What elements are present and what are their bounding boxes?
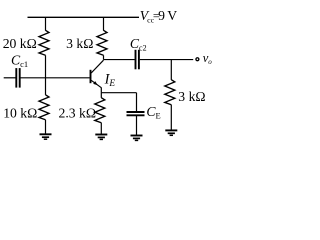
wire emitter junction to CE branch <box>101 92 136 94</box>
svg-text:3 kΩ: 3 kΩ <box>66 36 93 51</box>
ground below 2.3k <box>95 135 107 140</box>
wire 20k to input junction <box>45 55 47 78</box>
svg-text:20 kΩ: 20 kΩ <box>3 36 37 51</box>
wire collector junction to Cc2 <box>104 59 135 61</box>
ground below CE <box>131 136 143 141</box>
capacitor Cc2 <box>136 50 139 70</box>
wire input junction to 10k resistor <box>45 78 47 95</box>
transistor Q1 emitter line with arrow <box>91 80 101 87</box>
wire 3k to collector junction <box>103 55 105 59</box>
svg-text:Vcc=9V: Vcc=9V <box>140 8 177 24</box>
node vo terminal circle <box>196 58 199 61</box>
wire output line to 3k load <box>170 60 172 80</box>
wire 3k load to ground <box>170 105 172 130</box>
wire rail to 3k resistor <box>103 17 105 30</box>
wire emitter junction to 2.3k <box>100 93 102 98</box>
wire emitter to junction <box>100 88 102 93</box>
capacitor Cc1 <box>16 68 19 88</box>
wire top supply rail <box>28 16 140 18</box>
resistor 20k <box>39 30 49 55</box>
svg-text:10 kΩ: 10 kΩ <box>3 105 37 120</box>
ground below 10k <box>40 134 52 139</box>
wire CE to ground <box>136 116 138 135</box>
wire CE branch down <box>136 93 138 112</box>
svg-text:3 kΩ: 3 kΩ <box>178 89 205 104</box>
wire Cc1 to base <box>21 77 90 79</box>
capacitor CE <box>127 112 145 115</box>
resistor 2.3k emitter <box>95 98 105 123</box>
wire input left segment <box>4 77 16 79</box>
transistor Q1 base bar <box>90 70 92 83</box>
wire 10k to ground <box>45 120 47 134</box>
resistor 3k collector <box>97 30 107 55</box>
wire rail to 20k resistor <box>45 17 47 30</box>
svg-text:2.3 kΩ: 2.3 kΩ <box>59 106 97 121</box>
wire 2.3k to ground <box>100 123 102 135</box>
wire Cc2 to output node <box>140 59 193 61</box>
transistor Q1 collector line <box>91 60 103 73</box>
ground below 3k load <box>165 130 177 135</box>
resistor 10k <box>39 95 49 120</box>
resistor 3k load <box>165 80 175 105</box>
